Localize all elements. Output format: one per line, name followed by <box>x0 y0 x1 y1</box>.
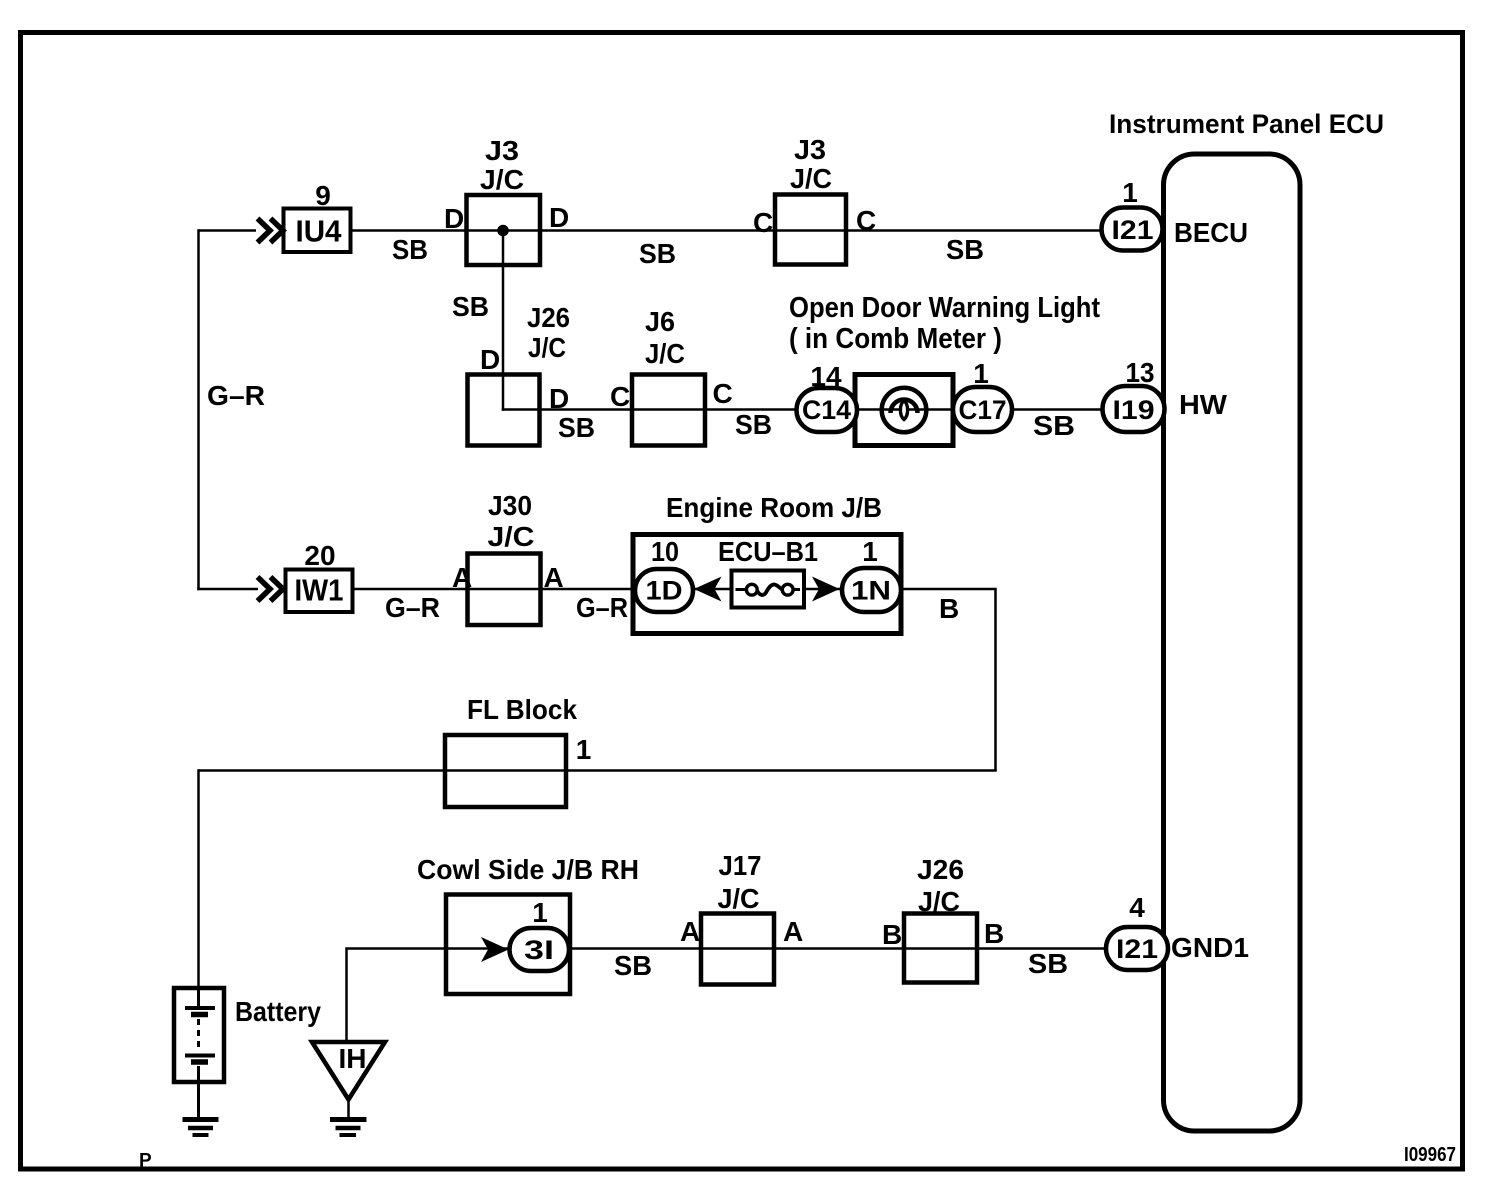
svg-text:B: B <box>882 919 902 950</box>
svg-text:4: 4 <box>1129 892 1145 923</box>
svg-text:IW1: IW1 <box>295 573 344 608</box>
svg-text:Battery: Battery <box>235 996 321 1027</box>
svg-text:G–R: G–R <box>207 380 265 411</box>
svg-text:G–R: G–R <box>385 592 440 623</box>
wire IH riser and into Cowl Side J/B <box>347 949 513 1043</box>
wire battery riser <box>197 769 200 988</box>
warning light housing box <box>855 375 953 446</box>
svg-text:1D: 1D <box>646 576 683 606</box>
junction dot node D in J3 <box>497 225 509 237</box>
svg-text:1: 1 <box>862 536 878 567</box>
arrow toward 3I <box>481 937 509 962</box>
svg-text:9: 9 <box>315 180 331 211</box>
svg-text:Cowl Side J/B RH: Cowl Side J/B RH <box>417 854 639 885</box>
svg-text:B: B <box>984 918 1004 949</box>
svg-text:I09967: I09967 <box>1404 1144 1456 1166</box>
open door warning light bulb <box>882 388 927 433</box>
ground below IH <box>330 1120 367 1136</box>
ground point IH triangle <box>312 1042 385 1118</box>
svg-text:1: 1 <box>973 358 989 389</box>
chevron arrows into IU4 <box>258 219 284 243</box>
svg-text:J17: J17 <box>719 850 762 881</box>
svg-text:J3: J3 <box>794 134 826 165</box>
svg-text:Instrument Panel ECU: Instrument Panel ECU <box>1109 109 1384 139</box>
svg-text:D: D <box>549 383 569 414</box>
pin oval I19 HW <box>1103 386 1165 432</box>
chevron arrows into IW1 <box>258 577 284 601</box>
svg-text:J/C: J/C <box>528 332 566 363</box>
svg-text:B: B <box>939 593 959 624</box>
svg-text:SB: SB <box>392 234 428 265</box>
pin oval C14 <box>797 388 858 432</box>
connector IU4 box <box>284 209 351 253</box>
pin oval I21 BECU <box>1102 208 1163 251</box>
svg-text:ECU–B1: ECU–B1 <box>718 536 818 567</box>
battery <box>174 988 224 1117</box>
FL Block <box>445 735 566 807</box>
svg-text:A: A <box>680 916 700 947</box>
svg-text:IU4: IU4 <box>296 214 343 249</box>
pin oval 1N <box>842 568 901 612</box>
svg-text:G–R: G–R <box>576 592 628 623</box>
arrow toward 1D <box>694 577 722 602</box>
junction block J17 J/C <box>701 914 774 985</box>
wire row1 IU4 to I21 BECU <box>351 229 1104 232</box>
svg-text:C: C <box>753 207 773 238</box>
svg-text:SB: SB <box>1033 410 1075 441</box>
svg-text:I21: I21 <box>1116 934 1158 964</box>
svg-text:J6: J6 <box>645 306 675 337</box>
junction block J26 J/C (row 5) <box>904 914 977 983</box>
svg-text:20: 20 <box>304 540 335 571</box>
svg-text:I19: I19 <box>1113 395 1155 425</box>
svg-text:C14: C14 <box>802 395 851 425</box>
svg-text:J/C: J/C <box>718 883 760 914</box>
wire G-R left vertical <box>197 229 200 590</box>
svg-text:SB: SB <box>452 291 489 322</box>
svg-text:J/C: J/C <box>918 886 960 917</box>
svg-text:3I: 3I <box>524 935 554 965</box>
svg-text:A: A <box>452 562 472 593</box>
svg-text:FL Block: FL Block <box>467 694 577 725</box>
svg-text:I21: I21 <box>1112 215 1154 245</box>
svg-text:J/C: J/C <box>480 164 524 195</box>
svg-text:J30: J30 <box>488 490 532 521</box>
svg-text:D: D <box>480 344 500 375</box>
svg-text:C: C <box>856 205 876 236</box>
svg-text:SB: SB <box>735 409 772 440</box>
svg-text:A: A <box>544 562 564 593</box>
svg-text:1: 1 <box>576 734 592 765</box>
svg-text:14: 14 <box>810 361 842 392</box>
junction block J30 J/C <box>468 554 541 626</box>
wire row1 left stub to IU4 <box>199 229 257 232</box>
wire SB vertical from J3 junction to J26 <box>502 231 505 411</box>
wire row2 J26 to I19 HW <box>502 408 1105 411</box>
svg-text:A: A <box>783 916 803 947</box>
svg-text:13: 13 <box>1126 357 1155 388</box>
svg-text:GND1: GND1 <box>1171 932 1249 963</box>
pin oval C17 <box>953 387 1012 432</box>
svg-text:P: P <box>139 1151 152 1172</box>
svg-text:J3: J3 <box>485 135 519 166</box>
ECU connector block Instrument Panel ECU <box>1164 154 1301 1131</box>
svg-text:SB: SB <box>639 238 676 269</box>
svg-text:10: 10 <box>651 536 679 567</box>
svg-text:1: 1 <box>532 897 548 928</box>
svg-text:D: D <box>444 203 464 234</box>
svg-text:SB: SB <box>614 950 652 981</box>
svg-text:IH: IH <box>339 1043 367 1074</box>
svg-text:1: 1 <box>1122 177 1138 208</box>
pin oval 1D <box>635 569 693 612</box>
svg-text:J/C: J/C <box>790 163 832 194</box>
pin oval 3I <box>510 928 570 971</box>
wire row3 IW1 to 1D <box>353 588 640 591</box>
svg-text:C17: C17 <box>959 395 1007 425</box>
junction block J3 J/C (second) <box>775 195 846 265</box>
fuse ECU-B1 <box>732 571 805 608</box>
pin oval I21 GND1 <box>1106 927 1168 970</box>
svg-text:D: D <box>549 202 569 233</box>
svg-text:J26: J26 <box>527 302 570 333</box>
junction block J26 J/C (row 2) <box>468 375 540 446</box>
junction block J3 J/C (first) <box>467 195 541 265</box>
svg-text:SB: SB <box>946 234 984 265</box>
svg-text:J/C: J/C <box>488 521 535 552</box>
wire row5 3I to I21 GND1 <box>568 947 1108 950</box>
wire B from 1N down to FL row <box>901 589 996 771</box>
svg-text:SB: SB <box>558 412 595 443</box>
svg-text:( in Comb Meter ): ( in Comb Meter ) <box>789 323 1002 355</box>
svg-text:J26: J26 <box>917 854 964 885</box>
svg-text:Engine Room J/B: Engine Room J/B <box>666 492 882 523</box>
Cowl Side J/B RH block <box>446 895 570 995</box>
svg-text:SB: SB <box>1028 948 1068 979</box>
junction block J6 J/C <box>632 375 705 446</box>
wire row3 left stub to IW1 <box>197 588 258 591</box>
connector IW1 box <box>286 570 353 613</box>
svg-text:J/C: J/C <box>645 338 685 369</box>
ground below battery <box>183 1120 219 1136</box>
Engine Room J/B block <box>633 535 901 634</box>
svg-text:C: C <box>610 381 630 412</box>
svg-text:BECU: BECU <box>1174 217 1248 248</box>
svg-text:1N: 1N <box>851 576 891 606</box>
wire FL Block row <box>199 769 997 772</box>
arrow toward 1N <box>812 577 840 602</box>
svg-text:HW: HW <box>1179 389 1228 420</box>
svg-text:Open Door Warning Light: Open Door Warning Light <box>789 292 1100 324</box>
wire fuse ECU-B1 link 1D to 1N <box>693 588 845 591</box>
svg-text:C: C <box>713 378 733 409</box>
